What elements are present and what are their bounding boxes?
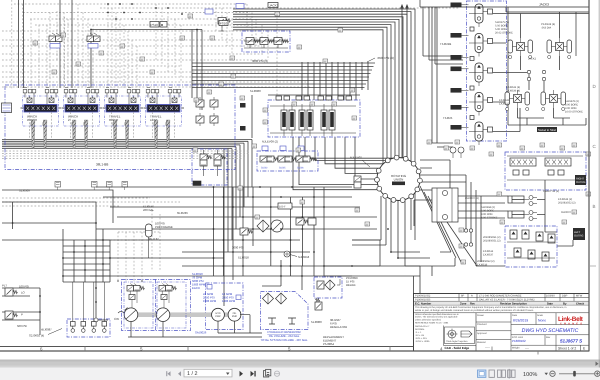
wire bottom-left network <box>2 190 113 320</box>
cartridge valve pair <box>299 110 305 130</box>
top tag boxes <box>219 21 228 26</box>
svg-text:8P: 8P <box>461 295 464 298</box>
svg-text:Drawn: Drawn <box>477 314 485 317</box>
svg-text:REGULATOR: REGULATOR <box>330 325 347 329</box>
toolbar zoom caret <box>545 373 549 375</box>
stack tag boxes <box>451 3 462 8</box>
hose bundle <box>72 120 76 149</box>
svg-text:Rev: Rev <box>470 302 475 305</box>
svg-text:RELIEF: RELIEF <box>346 283 356 287</box>
jack feed vertical pair <box>432 7 453 147</box>
svg-text:Check: Check <box>576 302 585 305</box>
svg-text:whole or part, of design and d: whole or part, of design and details con… <box>415 309 534 312</box>
third angle projection symbol <box>445 327 475 344</box>
sheet row <box>512 346 529 350</box>
outrigger manifold right-mid internals <box>507 230 555 261</box>
toolbar next button <box>240 371 244 377</box>
holding valve module 1 <box>469 4 493 27</box>
svg-text:38L1132: 38L1132 <box>148 237 159 241</box>
boundary: main control valve bank <box>5 85 235 170</box>
svg-text:JACK2: JACK2 <box>528 58 537 61</box>
svg-text:DBP: DBP <box>562 295 568 298</box>
jack valve group <box>508 38 533 59</box>
bottom-left PLT relief valve 100 PSI <box>2 284 29 297</box>
svg-text:65J0007: 65J0007 <box>561 211 572 214</box>
svg-text:45J0087: 45J0087 <box>41 328 52 332</box>
wire vertical pair left <box>18 0 20 88</box>
svg-text:.X ± .1: .X ± .1 <box>415 331 422 334</box>
svg-text:UNION: UNION <box>394 178 404 182</box>
svg-text:ANGULAR ±1°: ANGULAR ±1° <box>415 325 430 328</box>
boundary: triple relief assembly top <box>242 31 290 52</box>
toolbar zoom-in button <box>595 371 600 376</box>
toolbar layout icon 2 <box>489 370 494 377</box>
zone ticks bottom <box>85 347 538 355</box>
svg-text:50J05: 50J05 <box>279 167 286 170</box>
svg-text:Swivel to Strat: Swivel to Strat <box>538 128 556 132</box>
svg-text:16.00 STROKE: 16.00 STROKE <box>565 111 583 114</box>
label 4500 PSI (9) <box>367 56 394 62</box>
svg-text:EACH: EACH <box>192 286 200 290</box>
svg-text:1XJ8536 (4): 1XJ8536 (4) <box>506 90 520 93</box>
dashed return rows under bus <box>2 151 250 159</box>
inter-module orifices <box>470 27 474 31</box>
svg-text:CAD - Solid Edge: CAD - Solid Edge <box>445 346 470 350</box>
scrollbar corner <box>599 360 600 368</box>
svg-text:65J0007 (2): 65J0007 (2) <box>465 197 479 200</box>
svg-text:SAJ0026: SAJ0026 <box>195 331 207 335</box>
hose bundle <box>31 120 35 149</box>
feed header line top-center <box>91 30 202 89</box>
svg-text:T5J022B: T5J022B <box>440 42 451 46</box>
jack labels <box>495 21 583 114</box>
toolbar zoom-out button <box>550 371 555 376</box>
inner pump sub-boxes <box>124 282 186 328</box>
charge relief valve 3000 PSI <box>240 228 252 235</box>
pump labels <box>192 272 236 335</box>
svg-text:MFW: MFW <box>576 295 583 298</box>
svg-text:DECIMAL: DECIMAL <box>415 328 426 331</box>
relief labels right of reservoir <box>323 276 358 346</box>
triple relief valve assembly (51J0435) <box>244 38 289 64</box>
svg-text:NJLEV09 (2): NJLEV09 (2) <box>262 140 278 144</box>
tag glyph marks <box>34 14 590 263</box>
svg-text:NJL0218: NJL0218 <box>298 255 310 259</box>
wires right mid connects <box>458 180 557 232</box>
return filter assembly <box>317 279 340 290</box>
relief manifold center-left <box>196 97 218 126</box>
boundary: outrigger manifold right-mid <box>505 226 557 267</box>
svg-text:.063 DIA: .063 DIA <box>541 27 551 30</box>
svg-text:3000 PSI (3): 3000 PSI (3) <box>252 59 268 63</box>
svg-text:OUTRG: OUTRG <box>576 181 585 184</box>
swivel tag center-right <box>537 127 557 132</box>
svg-text:PLT: PLT <box>2 284 7 288</box>
bank interconnect dashed verticals <box>30 112 175 139</box>
inter-row disconnect circles <box>527 70 530 73</box>
svg-text:.XX ± .06: .XX ± .06 <box>415 334 425 337</box>
sheet inner bottom border <box>0 346 414 348</box>
svg-text:Date: Date <box>547 302 553 305</box>
wire center verticals <box>191 30 193 99</box>
svg-text:S2J0602 (4): S2J0602 (4) <box>29 334 44 338</box>
svg-text:Third Angle Projection: Third Angle Projection <box>446 340 468 343</box>
revision table <box>414 294 590 306</box>
union bottom exits <box>352 196 436 266</box>
svg-text:PS10: PS10 <box>220 22 228 26</box>
svg-text:inches. The tolerances below: inches. The tolerances below are applica… <box>415 316 458 319</box>
svg-text:E.C. Number: E.C. Number <box>415 302 431 305</box>
gauges pair right <box>450 147 456 153</box>
legal text <box>415 306 567 312</box>
beam cylinder block mid-right <box>432 188 458 222</box>
toolbar layout icon 3 <box>498 370 506 377</box>
toolbar zoom slider track <box>559 373 594 375</box>
svg-text:100%: 100% <box>523 372 537 378</box>
svg-text:1XJ8517: 1XJ8517 <box>499 103 510 106</box>
boundary: holding valve stack right <box>467 1 507 141</box>
NJL0218 label <box>290 255 310 260</box>
hose bundle <box>113 120 117 149</box>
boundary: sender terminal strip <box>67 319 110 337</box>
main pressure bus under valve bank <box>2 139 252 141</box>
pilot valve cluster TSA <box>193 150 225 186</box>
svg-text:100 F: 100 F <box>279 206 286 209</box>
svg-text:.XXXX ± .0005: .XXXX ± .0005 <box>415 340 430 343</box>
svg-text:4500 PSI (9): 4500 PSI (9) <box>377 56 394 60</box>
zone tick right margin <box>590 265 596 267</box>
ECO and number row <box>512 336 551 339</box>
svg-text:51J0860: 51J0860 <box>250 89 261 93</box>
svg-text:100 PSI: 100 PSI <box>19 285 29 289</box>
jack valve group <box>547 38 572 59</box>
svg-text:CBA07*18 (2): CBA07*18 (2) <box>543 190 559 193</box>
toolbar disabled icon <box>274 371 279 376</box>
misc right top verticals <box>423 7 463 64</box>
valve module 4 (TRAVEL LEFT) <box>144 88 185 149</box>
staircase grid upper-center <box>192 62 375 100</box>
svg-text:8/26/2019: 8/26/2019 <box>513 319 528 323</box>
hose bundle <box>154 120 158 149</box>
svg-text:PMP: PMP <box>215 315 221 318</box>
sender terminal strip <box>71 282 107 332</box>
svg-text:JACK2: JACK2 <box>269 4 279 8</box>
hose bundle <box>43 120 47 149</box>
bottom long wires to title area <box>324 240 420 294</box>
wire grid center <box>96 186 330 188</box>
rotating union <box>375 155 423 202</box>
cartridge valve pair <box>281 110 287 130</box>
svg-text:DWG HYD SCHEMATIC: DWG HYD SCHEMATIC <box>522 328 579 334</box>
svg-text:PS10: PS10 <box>151 23 159 27</box>
svg-text:2010810G2 (2): 2010810G2 (2) <box>558 202 576 205</box>
svg-text:Material: Material <box>477 341 486 344</box>
svg-text:P1006010G5: P1006010G5 <box>415 298 431 301</box>
svg-text:2010850G1 (2): 2010850G1 (2) <box>483 240 501 243</box>
svg-text:Unless otherwise specified dim: Unless otherwise specified dimensions ar… <box>415 313 459 316</box>
zone numbers bottom <box>40 347 443 352</box>
upper trunk staircase into rotating union <box>233 9 415 240</box>
union right exits <box>414 160 466 226</box>
Link-Belt logo <box>558 316 584 326</box>
main trunk pair with arrows <box>401 5 408 159</box>
approvals column <box>476 313 511 351</box>
holding valve module 5 <box>469 122 493 145</box>
toolbar page box <box>184 369 232 377</box>
jack frame drop lines <box>508 7 586 125</box>
boundary: pump group divider <box>155 280 157 331</box>
svg-text:.XXX ± .015: .XXX ± .015 <box>415 337 427 340</box>
valve module 3 (TRAVEL RIGHT) <box>103 88 144 149</box>
svg-text:CRANES: CRANES <box>560 323 584 326</box>
pump regulator cluster <box>127 284 144 309</box>
right outrigger tag <box>575 175 586 185</box>
suction filter diamond <box>263 293 274 304</box>
svg-text:Date: Date <box>512 314 518 317</box>
bottom-left relief valve 500 PSI <box>5 311 27 328</box>
small blue tags near pumps <box>207 285 212 290</box>
strainer <box>288 318 296 324</box>
gear pump 2 <box>228 308 241 321</box>
date & scale cells <box>511 313 589 325</box>
svg-text:1983 RPM: 1983 RPM <box>203 299 217 303</box>
45J0087 label <box>41 318 98 332</box>
svg-text:1XJ8516: 1XJ8516 <box>477 264 488 267</box>
6psi regulator valve <box>315 298 322 310</box>
svg-text:A: A <box>471 295 473 298</box>
cartridge valve pair <box>321 110 327 130</box>
svg-text:Zone: Zone <box>460 302 467 305</box>
svg-text:260 GAL: 260 GAL <box>143 208 154 212</box>
svg-text:LT-1 046 ROD DIAMETER CHANGE: LT-1 046 ROD DIAMETER CHANGE <box>479 295 522 298</box>
svg-text:TOTAL SYSTEM VOLUME - 287 GAL: TOTAL SYSTEM VOLUME - 287 GAL <box>260 338 307 342</box>
100 PSI PRECHARGE label <box>155 222 173 230</box>
reservoir text <box>260 330 307 342</box>
svg-text:Revision Description: Revision Description <box>500 302 527 305</box>
svg-text:P: P <box>21 313 23 317</box>
boundary: swing valve cluster <box>268 100 360 137</box>
manifold-to-union fan <box>293 137 393 190</box>
hose bundle <box>166 120 170 149</box>
svg-text:PRECHARGE: PRECHARGE <box>155 225 173 229</box>
svg-text:4.00 STROKE: 4.00 STROKE <box>481 217 498 220</box>
pilot line grid (gray dashed), upper-left <box>2 0 460 282</box>
svg-text:Scale: Scale <box>537 314 544 317</box>
svg-text:------: ------ <box>485 347 490 350</box>
svg-text:OUTRG: OUTRG <box>574 235 583 238</box>
boundary: gear pump group <box>206 283 244 330</box>
manifold tag box <box>573 228 585 240</box>
svg-text:unless otherwise specified.: unless otherwise specified. <box>415 319 442 322</box>
main pump 1 <box>124 308 138 322</box>
svg-text:PMP: PMP <box>232 315 238 318</box>
CW arrow <box>114 312 124 322</box>
solenoid valve row (swing brake) <box>260 146 317 170</box>
toolbar first-page button <box>166 371 170 376</box>
pump drive shaft <box>126 312 240 317</box>
labels mid-right <box>465 190 576 267</box>
svg-text:38L1-BB: 38L1-BB <box>96 163 108 167</box>
top small component <box>218 18 230 32</box>
hose bundle <box>125 120 129 149</box>
svg-text:CW: CW <box>114 317 119 321</box>
svg-text:SA6_AR YS S LAYER - 7-0.046 SL: SA6_AR YS S LAYER - 7-0.046 SLEV 212YR92 <box>479 298 535 301</box>
svg-text:50J02: 50J02 <box>261 167 268 170</box>
svg-text:T5J025: T5J025 <box>443 116 453 120</box>
svg-text:50J06: 50J06 <box>297 167 304 170</box>
toolbar prev button <box>178 371 181 376</box>
pump regulator cluster <box>159 284 176 309</box>
tolerance notes <box>415 313 459 343</box>
hose bundle <box>84 120 88 149</box>
title block <box>414 294 590 352</box>
svg-text:JACK3: JACK3 <box>539 3 549 7</box>
svg-text:Approval: Approval <box>477 332 487 335</box>
svg-text:20.62 STROKE: 20.62 STROKE <box>495 32 513 35</box>
top small tagged valve PS10 <box>150 22 167 28</box>
toolbar background <box>0 368 600 380</box>
svg-text:P5J0854: P5J0854 <box>323 342 334 346</box>
svg-text:P1006010G2: P1006010G2 <box>415 295 431 298</box>
strainer <box>268 318 276 324</box>
gear pump 1 <box>212 308 225 321</box>
valve bank inlet module MJL <box>2 103 12 113</box>
S2J0602 label <box>29 329 62 338</box>
svg-text:Checked: Checked <box>477 323 487 326</box>
svg-text:3000 PSI: 3000 PSI <box>232 246 244 250</box>
svg-text:Sheet 1 of 2: Sheet 1 of 2 <box>558 347 576 351</box>
gauge circles <box>284 251 290 257</box>
pilot solenoid valve <box>49 33 62 48</box>
diagonals into union lower-right <box>420 186 477 266</box>
tiny tag boxes scattered <box>33 12 591 264</box>
svg-text:Weight: Weight <box>512 346 520 349</box>
cooler bypass valve <box>296 218 316 225</box>
swing manifold feed lines <box>252 95 360 138</box>
swing/pump control manifold <box>240 89 356 144</box>
svg-text:10/3/60: 10/3/60 <box>546 295 555 298</box>
svg-text:1983 RPM: 1983 RPM <box>222 299 236 303</box>
svg-text:REFERENCE ASME Y14.5 - 1994: REFERENCE ASME Y14.5 - 1994 <box>415 321 449 324</box>
svg-text:51J0677 S: 51J0677 S <box>560 339 583 344</box>
boundary: hydraulic reservoir <box>261 292 309 330</box>
jack valve group row2 <box>505 90 530 111</box>
window right edge <box>598 0 600 360</box>
boundary: outrigger manifold right-top <box>505 152 586 190</box>
quick disconnect circles <box>464 229 467 232</box>
boundary: pump group outer <box>122 280 191 331</box>
svg-text:By: By <box>563 302 567 305</box>
svg-text:51J0018: 51J0018 <box>238 256 249 260</box>
svg-text:1XJ8537: 1XJ8537 <box>483 254 494 257</box>
toolbar last-page button <box>251 371 256 377</box>
jack circuit frame <box>420 0 589 125</box>
right-top outrigger manifold internals <box>507 156 583 180</box>
right stack to jacks wiring <box>493 14 589 132</box>
horizontal scrollbar track <box>0 360 600 368</box>
bus turns down toward center <box>251 140 253 188</box>
suction filter diamond <box>276 293 287 304</box>
zone letters right margin <box>593 84 597 209</box>
svg-text:NJLEV02: NJLEV02 <box>350 156 362 160</box>
cylinder capsule pair <box>508 196 537 206</box>
svg-text:P1888102: P1888102 <box>512 339 526 343</box>
toolbar layout icon 1 (selected) <box>478 370 486 377</box>
holding valve module 4 <box>469 93 493 116</box>
filter diamond and charge pump <box>257 220 283 232</box>
valve module 1 (WINCH) <box>21 88 62 149</box>
51J0546 label <box>143 205 154 213</box>
jack valve group row2 <box>541 90 566 111</box>
svg-text:65J0236: 65J0236 <box>177 211 188 215</box>
svg-text:-----: ----- <box>525 347 529 350</box>
sheet right border <box>588 0 590 351</box>
stack labels <box>440 42 453 120</box>
cylinder capsule pair <box>508 211 537 221</box>
port tag boxes under bus <box>55 182 128 188</box>
holding valve module 2 <box>469 34 493 57</box>
sheet outer bottom border <box>0 350 589 352</box>
pilot solenoid valve <box>87 33 100 48</box>
svg-text:None: None <box>538 319 546 323</box>
toolbar zoom slider handle <box>573 371 576 377</box>
boundary: return filter relief <box>314 277 342 298</box>
svg-text:51J0800: 51J0800 <box>311 320 322 324</box>
toolbar page dropdown caret <box>226 373 230 376</box>
svg-text:51J0509: 51J0509 <box>19 189 30 193</box>
svg-text:500 PSI: 500 PSI <box>17 324 27 328</box>
holding valve module 3 <box>469 63 493 86</box>
boundary: pilot valve cluster center <box>192 149 227 185</box>
union inlet valve NJLEV02 <box>350 156 370 189</box>
svg-text:1 / 2: 1 / 2 <box>187 371 198 377</box>
toolbar pages icon <box>264 369 271 377</box>
boundary: solenoid valve row center <box>257 151 318 171</box>
pressure switch <box>278 203 292 209</box>
valve module 2 (WINCH 2) <box>62 88 103 149</box>
scrollbar right arrow <box>596 362 599 366</box>
per-module blue sub-boundaries <box>23 96 182 126</box>
toolbar layout icon 4 <box>508 369 516 379</box>
svg-text:B: B <box>593 204 596 209</box>
accumulator 100 PSI precharge <box>146 224 153 258</box>
pump drain lines <box>128 315 262 337</box>
main pump 2 <box>156 308 170 322</box>
